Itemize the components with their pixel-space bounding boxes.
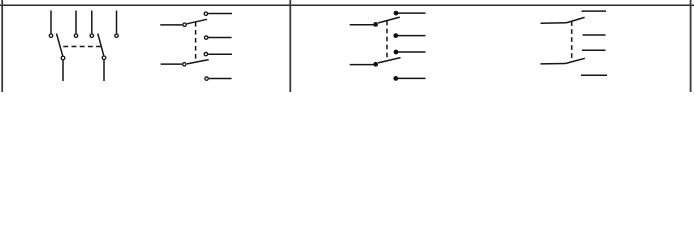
- S1 throw terminal circle 2: [74, 34, 77, 37]
- S1 throw terminal circle 1: [49, 34, 52, 37]
- S1 mechanical link (dashed): [60, 46, 101, 48]
- S3 pole 2 pivot dot: [373, 62, 378, 67]
- S1 throw terminal lead 4: [116, 11, 118, 34]
- S4 pole 1 throw B line: [583, 34, 606, 36]
- S4 pole 1 lever: [566, 17, 585, 23]
- S2 pole 1 throw B line: [209, 37, 232, 39]
- table top border: [0, 4, 694, 6]
- S1 pole 2 lever: [98, 34, 104, 56]
- S3 pole 2 throw B line: [398, 77, 426, 79]
- S2 pole 1 throw A circle: [204, 12, 207, 15]
- S1 throw terminal circle 3: [90, 34, 93, 37]
- S3 pole 1 pivot dot: [373, 22, 378, 27]
- S3 pole 1 throw A dot: [394, 11, 399, 16]
- S2 pole 2 throw A circle: [204, 52, 207, 55]
- S1 throw terminal lead 1: [50, 11, 52, 34]
- S4 pole 1 throw A line: [582, 10, 607, 12]
- S2 pole 1 throw B circle: [205, 36, 208, 39]
- S3 pole 1 throw B dot: [393, 33, 398, 38]
- S3 pole 1 throw B line: [398, 35, 425, 37]
- S2 pole 2 common line: [161, 63, 182, 65]
- S1 pole 2 common circle: [102, 56, 106, 60]
- S3 pole 1 lever: [378, 17, 400, 23]
- S3 pole 1 throw A line: [398, 12, 426, 14]
- S1 pole 1 common lead: [62, 60, 64, 81]
- table middle vertical border: [289, 0, 291, 92]
- S2 pole 2 throw B circle: [205, 77, 208, 80]
- S4 pole 2 throw B line: [581, 74, 607, 76]
- S4 pole 2 common line: [540, 63, 565, 65]
- S4 pole 2 throw A line: [582, 49, 606, 51]
- S3 mechanical link (dashed): [386, 21, 388, 61]
- S2 pole 2 pivot circle: [183, 63, 186, 66]
- S1 pole 1 common circle: [61, 56, 65, 60]
- S1 throw terminal circle 4: [115, 34, 118, 37]
- S2 pole 1 common line: [160, 24, 182, 26]
- S3 pole 2 common line: [350, 64, 374, 66]
- S1 pole 2 common lead: [103, 60, 105, 81]
- S3 pole 1 common line: [350, 24, 374, 26]
- S4 pole 2 lever: [565, 58, 585, 63]
- S2 pole 2 throw A line: [208, 53, 232, 55]
- S1 throw terminal lead 2: [75, 11, 77, 34]
- table left vertical border: [1, 0, 3, 92]
- S3 pole 2 throw B dot: [393, 76, 398, 81]
- S3 pole 2 lever: [378, 58, 401, 63]
- S2 pole 1 throw A line: [208, 13, 232, 15]
- S2 mechanical link (dashed): [195, 22, 197, 62]
- S4 mechanical link (dashed): [571, 21, 573, 62]
- S1 throw terminal lead 3: [91, 11, 93, 34]
- S1 pole 1 lever: [57, 34, 63, 56]
- table right vertical border: [690, 0, 692, 92]
- S2 pole 1 lever: [187, 19, 207, 24]
- S4 pole 1 common line: [541, 22, 567, 25]
- S3 pole 2 throw A dot: [394, 50, 399, 55]
- S2 pole 2 throw B line: [209, 78, 232, 80]
- S2 pole 1 pivot circle: [183, 23, 186, 26]
- S2 pole 2 lever: [187, 60, 209, 64]
- S3 pole 2 throw A line: [398, 51, 426, 53]
